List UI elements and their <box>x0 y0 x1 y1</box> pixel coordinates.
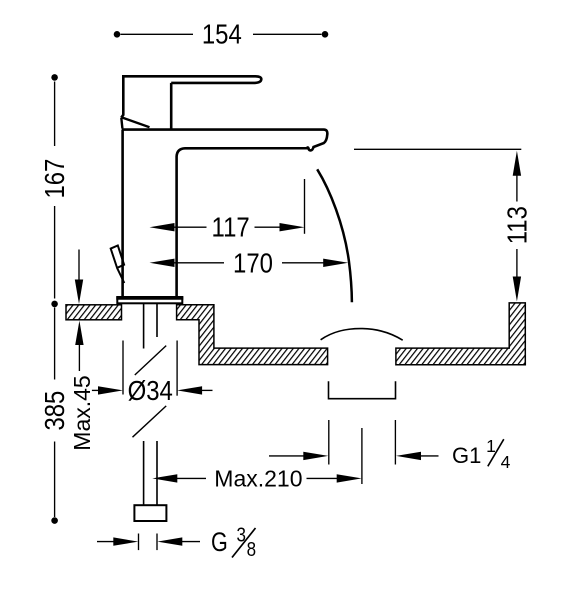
dimension Max.45 down arrow <box>78 250 80 282</box>
countertop right section with step and left bowl floor (hatched) <box>177 305 328 365</box>
dimension G 3/8 right arrow <box>157 537 182 545</box>
dimension 117 lines <box>174 179 305 234</box>
pipe break slash upper <box>135 346 166 375</box>
svg-text:117: 117 <box>212 213 250 243</box>
pipe break slash lower <box>133 406 167 437</box>
dimension Max.210 left arrow <box>152 474 177 482</box>
countertop left section (hatched) <box>66 305 122 320</box>
faucet body and spout outline <box>122 130 328 297</box>
dimension 154 right dot <box>322 31 329 38</box>
dimension G 3/8 left arrow <box>113 537 138 545</box>
dimension 113 reference and lines <box>354 149 521 278</box>
dimension 117 left arrow <box>150 223 175 231</box>
svg-text:Ø34: Ø34 <box>128 376 173 406</box>
dimension 154 lines <box>121 33 322 35</box>
pop-up waste dome arc <box>321 329 403 341</box>
faucet handle blade <box>123 76 261 83</box>
svg-text:385: 385 <box>41 391 71 431</box>
dimension D34 left arrow <box>98 386 123 394</box>
dimension 167 top dot <box>51 74 58 81</box>
svg-text:154: 154 <box>202 20 242 50</box>
dimension G1 1/4 left arrow <box>303 452 328 460</box>
dimension Max.210 lines <box>177 428 362 484</box>
dimension 385 lines <box>54 308 56 518</box>
dimension G1 1/4 lines <box>269 420 439 465</box>
dimension G 3/8 lines and ticks <box>97 534 200 551</box>
svg-text:Max.210: Max.210 <box>214 465 302 491</box>
svg-text:170: 170 <box>233 249 273 279</box>
faucet handle left edge <box>121 75 123 118</box>
dimension D34 extension and tail lines <box>92 341 213 396</box>
dimension 385 top dot <box>51 301 58 308</box>
pipe end fitting <box>134 505 166 521</box>
svg-text:G: G <box>211 528 228 558</box>
dimension G1 1/4 right arrow <box>396 452 421 460</box>
faucet handle neck <box>170 83 173 129</box>
dimension D34 right arrow <box>177 386 202 394</box>
dimension 113 up arrow <box>513 151 521 176</box>
dimension Max.45 up arrow <box>75 321 83 345</box>
dimension 170 left arrow <box>150 259 175 267</box>
svg-text:8: 8 <box>247 538 256 561</box>
faucet cartridge wedge <box>121 117 149 128</box>
dimension Max.210 right arrow <box>337 474 362 482</box>
dimension 170 lines <box>174 262 324 264</box>
water stream arc <box>317 169 352 302</box>
side pull-rod lever <box>111 246 125 284</box>
svg-text:167: 167 <box>41 159 71 199</box>
svg-text:4: 4 <box>501 452 511 472</box>
dimension 170 right arrow <box>323 259 348 267</box>
right bowl floor and right riser (hatched) <box>396 303 525 365</box>
dimension 167 lines <box>54 82 56 299</box>
dimension 385 bottom dot <box>51 517 58 524</box>
supply pipe shank segments <box>144 304 157 505</box>
dimension 117 right arrow <box>280 223 305 231</box>
svg-text:1: 1 <box>486 436 496 456</box>
drain flange U profile <box>329 381 396 399</box>
base plate escutcheon <box>117 297 182 303</box>
svg-text:113: 113 <box>503 206 533 244</box>
dimension 113 down arrow <box>513 277 521 302</box>
svg-text:G1: G1 <box>452 443 481 468</box>
svg-text:Max.45: Max.45 <box>69 375 95 450</box>
dimension 154 left dot <box>114 31 121 38</box>
